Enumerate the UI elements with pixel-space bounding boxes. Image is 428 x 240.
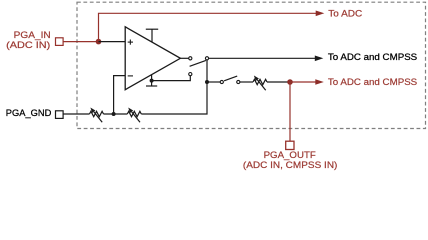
switch M1 lever xyxy=(190,60,206,66)
wire PGA_IN terminal to input node (red) xyxy=(63,41,98,43)
op-amp U1 triangle xyxy=(125,27,180,90)
node feedback tap junction dot xyxy=(112,112,116,116)
wire op-amp output to switch contact A xyxy=(180,57,188,59)
resistor R3 (variable, output filter) xyxy=(253,79,267,90)
arrowhead To ADC xyxy=(316,11,325,17)
terminal PGA_IN xyxy=(56,38,64,46)
switch M2 contact E xyxy=(237,80,240,83)
supply rail symbol on op-amp top edge xyxy=(146,29,158,42)
node input junction (red dot) xyxy=(96,39,102,45)
terminal PGA_GND xyxy=(56,111,64,119)
wire op-amp - input to feedback tap xyxy=(114,76,126,114)
svg-text:To ADC and CMPSS: To ADC and CMPSS xyxy=(328,77,417,87)
resistor R1 (variable, gain ladder) xyxy=(90,111,104,122)
arrowhead To ADC and CMPSS (red) xyxy=(315,79,324,85)
switch M1 contact B (lower) xyxy=(189,73,192,76)
wire output node to To ADC and CMPSS (red row) xyxy=(290,81,316,83)
wire rail node to switch contact D xyxy=(207,81,220,83)
arrowhead of resistor R2 xyxy=(128,108,133,114)
switch M2 contact D xyxy=(220,80,223,83)
svg-text:To ADC: To ADC xyxy=(328,9,363,19)
PGA module dashed boundary box xyxy=(77,2,426,128)
op-amp - input sign xyxy=(128,75,133,77)
op-amp + input sign xyxy=(128,40,133,45)
svg-text:(ADC IN): (ADC IN) xyxy=(6,40,50,50)
label PGA_IN (ADC IN) xyxy=(6,30,51,50)
wire contact E to resistor R3 xyxy=(240,81,253,83)
node op-amp ground tap junction dot xyxy=(150,79,154,83)
node rail junction dot xyxy=(205,80,209,84)
svg-text:(ADC IN, CMPSS IN): (ADC IN, CMPSS IN) xyxy=(243,160,338,170)
arrowhead of resistor R3 xyxy=(254,76,259,82)
node PGA_OUTF junction (red dot) xyxy=(287,79,293,85)
ground symbol under op-amp bottom edge xyxy=(146,75,157,86)
wire resistor R3 to output node xyxy=(267,81,290,83)
wire switch pole to To ADC and CMPSS (black row) xyxy=(209,57,316,59)
terminal PGA_OUTF xyxy=(286,141,294,149)
svg-text:PGA_IN: PGA_IN xyxy=(14,30,51,40)
switch M1 pole contact C xyxy=(205,57,208,60)
switch M2 lever xyxy=(224,76,237,81)
wire output node down to PGA_OUTF terminal (red) xyxy=(289,82,291,141)
svg-text:PGA_OUTF: PGA_OUTF xyxy=(264,150,317,160)
wire resistor R1 to tap node xyxy=(104,113,128,115)
arrowhead To ADC and CMPSS (black) xyxy=(315,56,324,62)
svg-text:PGA_GND: PGA_GND xyxy=(6,108,52,118)
wire input node to op-amp + input xyxy=(99,41,126,43)
wire ground tap to switch contact B xyxy=(152,76,191,81)
wire input node up and right to To ADC (red) xyxy=(99,13,317,41)
arrowhead of resistor R1 xyxy=(90,108,95,114)
switch M1 contact A (from op-amp output) xyxy=(189,57,192,60)
wire PGA_GND terminal to resistor R1 xyxy=(63,113,89,115)
label PGA_OUTF (ADC IN, CMPSS IN) xyxy=(243,150,338,170)
wire feedback rail vertical and bottom run xyxy=(141,60,207,114)
svg-text:To ADC and CMPSS: To ADC and CMPSS xyxy=(328,52,417,62)
resistor R2 (variable, gain ladder) xyxy=(127,111,141,122)
